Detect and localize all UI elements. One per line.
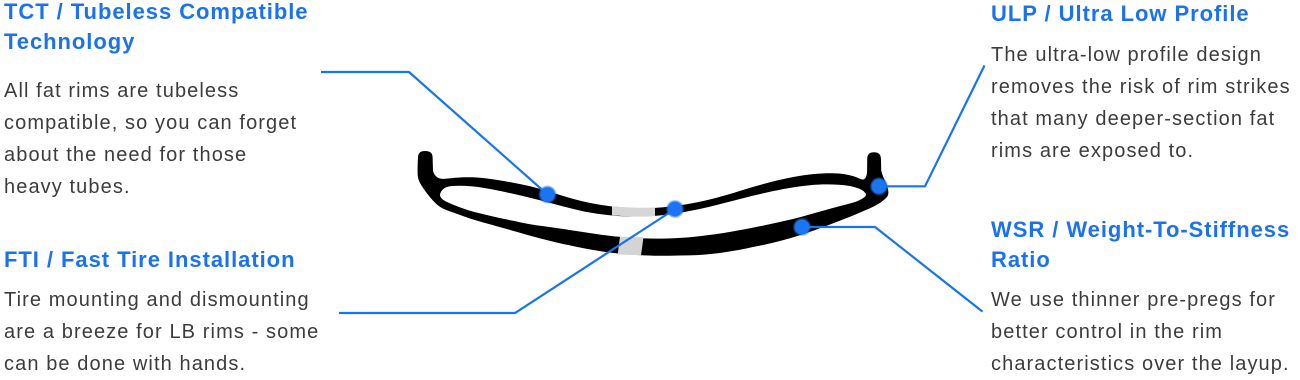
leader line ULP xyxy=(879,66,985,187)
heading WSR xyxy=(991,215,1290,275)
dot WSR xyxy=(793,218,812,237)
paragraph FTI xyxy=(4,284,319,380)
heading ULP xyxy=(991,0,1250,29)
dot FTI xyxy=(666,200,685,219)
leader line FTI xyxy=(339,209,675,313)
leader line TCT xyxy=(321,72,548,195)
dot TCT xyxy=(538,185,557,204)
paragraph TCT xyxy=(4,75,297,203)
heading TCT xyxy=(4,0,309,57)
gray notch on top wall xyxy=(612,206,655,216)
dot ULP xyxy=(870,177,889,196)
heading FTI xyxy=(4,245,295,275)
rim silhouette xyxy=(418,151,889,256)
rim inner cavity xyxy=(440,184,866,238)
paragraph ULP xyxy=(991,39,1291,167)
gray notch on bottom wall xyxy=(618,237,644,256)
leader line WSR xyxy=(802,227,983,312)
paragraph WSR xyxy=(991,284,1290,380)
